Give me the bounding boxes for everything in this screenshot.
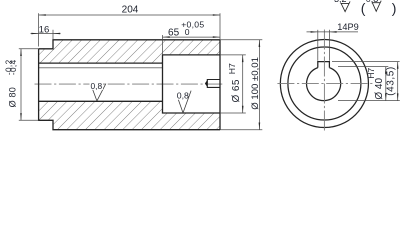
second circle diameter 80 (288, 47, 361, 120)
svg-text:0,8: 0,8 (177, 90, 189, 100)
svg-text:Ø 100 ±0,01: Ø 100 ±0,01 (250, 57, 261, 110)
hatch region main bottom band (53, 101, 163, 129)
svg-text:Ø 40: Ø 40 (374, 78, 385, 100)
svg-text:0,8: 0,8 (90, 81, 102, 91)
bore outline (163, 55, 221, 113)
outer circle (280, 39, 368, 127)
hatch region right bottom band (163, 113, 221, 130)
hole top silhouette line (thin, behind keyway) (39, 67, 163, 69)
dim 204 (38, 13, 40, 46)
svg-text:Ø 65: Ø 65 (231, 79, 242, 102)
center hole at right face (207, 80, 220, 88)
svg-text:(43,5): (43,5) (386, 66, 397, 95)
part outline (39, 40, 220, 130)
dim 65 +0,05/0 (162, 35, 164, 55)
roughness triangle 3,2 (341, 1, 350, 11)
svg-text:0: 0 (185, 27, 190, 37)
svg-text:0,8: 0,8 (366, 0, 379, 4)
svg-text:16: 16 (39, 24, 50, 35)
hole bottom edge line (39, 100, 163, 102)
dim (43,5) (332, 61, 400, 63)
roughness symbol 2 in bore (178, 91, 191, 113)
hole circle with keyway notch (307, 68, 341, 101)
svg-text:H7: H7 (227, 63, 237, 74)
end view vertical centerline (323, 30, 325, 132)
svg-text:14P9: 14P9 (337, 22, 358, 32)
dim diameter 65 H7 (220, 54, 246, 56)
dim 14P9 (317, 30, 319, 61)
hatch region main top band (53, 40, 163, 63)
dim diameter 40 H7 (338, 66, 388, 68)
roughness symbol 1 in hole (93, 84, 106, 101)
dim 16 (52, 30, 54, 40)
hatch region right top band (163, 40, 221, 55)
end view horizontal centerline (277, 83, 372, 85)
svg-text:Ø 80: Ø 80 (7, 87, 17, 107)
keyway notch (318, 62, 330, 68)
roughness triangle 0,8 (372, 1, 381, 12)
svg-text:204: 204 (122, 5, 139, 16)
svg-text:65: 65 (168, 27, 180, 38)
hatch region step top (39, 49, 53, 63)
svg-text:-0,4: -0,4 (9, 59, 18, 75)
dim diameter 100 +-0.01 (220, 39, 262, 41)
svg-text:): ) (392, 0, 397, 16)
keyway bottom edge line (39, 62, 163, 64)
hatch region step bottom (39, 101, 53, 120)
centerline section view (35, 83, 224, 85)
dim diameter 80 (19, 48, 39, 50)
svg-text:H7: H7 (366, 68, 376, 79)
